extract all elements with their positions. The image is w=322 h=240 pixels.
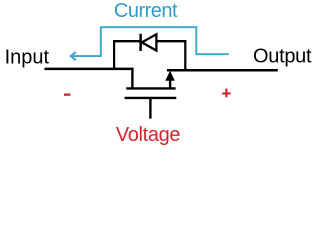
wire: diode branch right riser [184,40,186,70]
wire: input wire segment [45,68,134,71]
polarity label "+" [222,89,230,98]
svg-text:Current: Current [114,0,178,22]
wire: diode branch top-left segment [113,40,141,42]
transistor Q1 MOSFET gate lead [149,98,151,119]
transistor Q1 MOSFET drain arrowhead [165,71,175,81]
diode D1 body diode triangle [142,34,157,50]
svg-text:Output: Output [253,45,312,67]
wire: current path (cyan) [73,27,229,56]
transistor Q1 MOSFET source leg [131,68,133,89]
transistor Q1 MOSFET channel plate [126,87,175,89]
transistor Q1 MOSFET drain arrow stem [169,80,171,89]
svg-text:Voltage: Voltage [116,124,181,146]
wire: output wire segment [167,69,278,72]
polarity label "-" [64,94,70,96]
svg-text:Input: Input [5,47,50,69]
wire: diode branch left riser [113,40,115,69]
arrowhead: current direction (cyan) [71,52,76,60]
transistor Q1 MOSFET gate plate [125,97,177,99]
wire: diode branch top-right segment [156,40,187,42]
diode D1 body diode cathode bar [139,34,142,51]
